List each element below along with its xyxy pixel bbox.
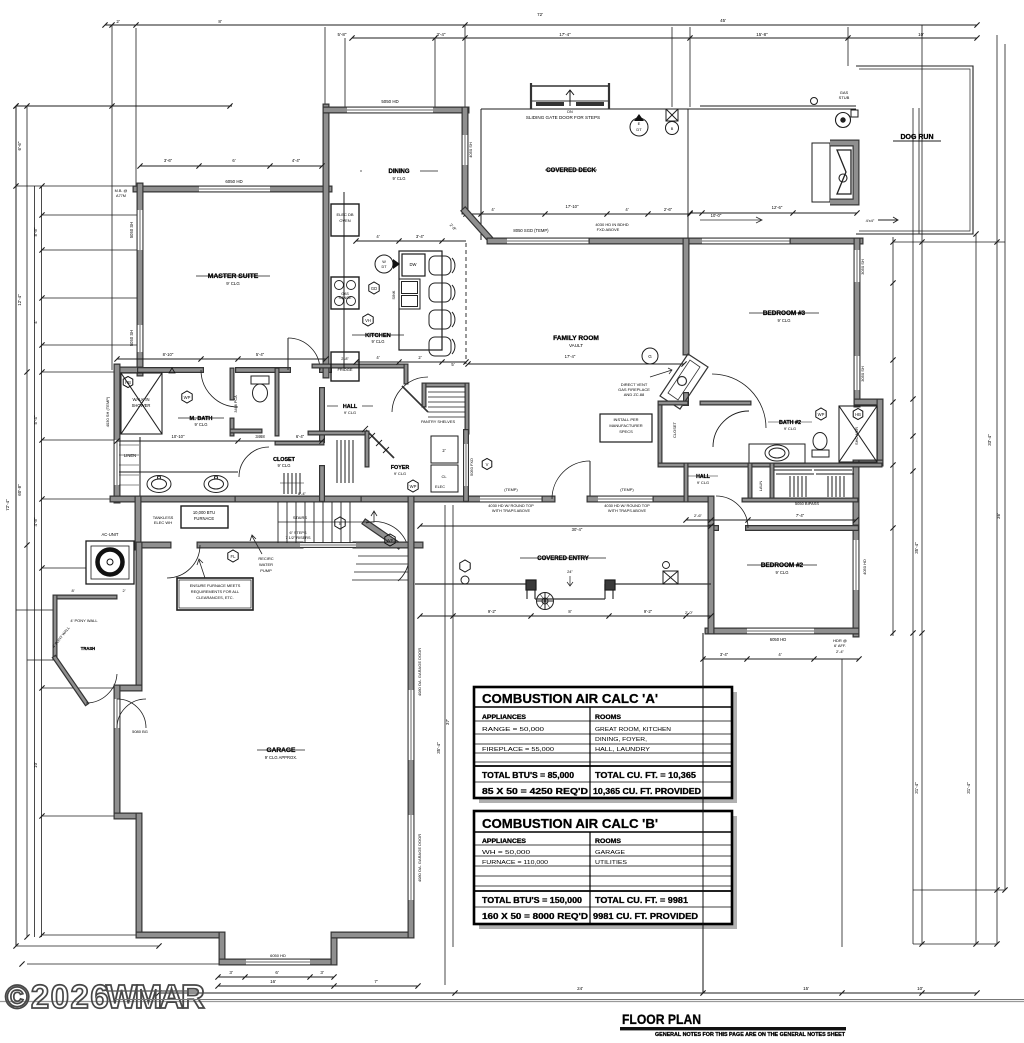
wall pantry north y385 (424, 383, 467, 388)
svg-text:DT: DT (381, 265, 387, 269)
svg-text:DOG RUN: DOG RUN (900, 134, 933, 141)
svg-text:DINING, FOYER,: DINING, FOYER, (595, 737, 647, 743)
svg-text:VAULT: VAULT (569, 343, 583, 348)
dim frame left line 72ft-4 (15, 106, 17, 946)
dim left stub y816 (42, 815, 115, 817)
svg-text:7'-4": 7'-4" (796, 513, 805, 518)
wall family north east seg (592, 238, 688, 245)
svg-text:24': 24' (577, 986, 583, 991)
wall garage west jog y688 (117, 685, 139, 692)
svg-text:4': 4' (625, 207, 628, 212)
svg-text:3'-4": 3'-4" (437, 32, 446, 37)
entry steps (358, 555, 410, 557)
table A shadow (479, 692, 737, 803)
wall bath2 north y403 (702, 401, 749, 406)
dim drop x136 (135, 28, 137, 189)
dim line entry y526 (417, 523, 713, 528)
kitchen cooktop (331, 277, 359, 309)
svg-text:24": 24" (567, 569, 573, 574)
svg-text:3050 SH: 3050 SH (860, 259, 865, 275)
svg-text:(TEMP): (TEMP) (620, 487, 634, 492)
stairs treads (278, 502, 352, 543)
wall family west x466 (463, 432, 469, 444)
entry column left (526, 580, 536, 590)
closet 2ft box (431, 436, 458, 463)
svg-text:9' CLG: 9' CLG (394, 471, 406, 476)
AC unit pad (86, 541, 134, 584)
dim line entry y616 (417, 613, 713, 618)
deck steps gate (531, 83, 609, 109)
wall laundry closet x750 (748, 465, 753, 500)
dim frame top line 72ft (105, 24, 977, 26)
wall garage recess west (219, 935, 226, 962)
wall dining east x465 (462, 110, 469, 135)
dim frame left line inner a (34, 186, 36, 937)
bath2 shower (839, 406, 877, 462)
dim left stub y215 (42, 214, 140, 216)
entry fan symbol (537, 593, 554, 610)
svg-text:10': 10' (917, 986, 923, 991)
symbol porch light (460, 560, 470, 572)
symbol hexagon stairs b (385, 534, 395, 546)
svg-text:3': 3' (320, 970, 324, 975)
dim frame left line 60ft-8 (26, 106, 28, 937)
svg-text:LAUN: LAUN (758, 481, 763, 492)
svg-text:35'-4": 35'-4" (436, 742, 441, 754)
svg-text:31'-4": 31'-4" (914, 782, 919, 794)
window master west upper 5050SH (137, 210, 144, 250)
bath2 vanity (749, 444, 805, 463)
kitchen oven box (331, 204, 359, 236)
wall west wing south y499 (113, 496, 238, 503)
dim left stub y186 (16, 185, 138, 187)
svg-text:8': 8' (72, 588, 75, 593)
svg-text:©2026: ©2026 (5, 978, 110, 1015)
svg-text:WP: WP (818, 412, 825, 417)
svg-text:TOTAL CU. FT. = 9981: TOTAL CU. FT. = 9981 (595, 896, 689, 905)
wall master bath west jog (117, 367, 140, 374)
svg-text:30'-4": 30'-4" (572, 527, 583, 532)
svg-text:CLEARANCES, ETC.: CLEARANCES, ETC. (196, 595, 233, 600)
master vanity sink left (147, 476, 171, 493)
pony wall trash west (53, 597, 58, 658)
svg-text:FURNACE = 110,000: FURNACE = 110,000 (482, 860, 548, 866)
wall garage east x411 (408, 900, 415, 935)
svg-text:B: B (671, 127, 674, 131)
wall angled front door (366, 523, 398, 545)
wall hall south y433 (310, 431, 365, 436)
wall bedroom3 north west (688, 238, 702, 245)
symbol porch box X right (663, 571, 678, 584)
svg-text:GARAGE: GARAGE (595, 850, 626, 856)
garage side door arc (117, 699, 146, 728)
svg-text:ROOMS: ROOMS (595, 714, 621, 721)
svg-text:ENSURE FURNACE MEETS: ENSURE FURNACE MEETS (190, 583, 241, 588)
dim drop x690 (689, 27, 691, 107)
window bedroom3 east upper 3050SH (854, 250, 861, 282)
svg-text:5050 SH: 5050 SH (129, 222, 134, 238)
dim run fence inner vertical x919 (918, 108, 920, 234)
covered deck top edge inner (700, 105, 856, 107)
svg-text:4': 4' (33, 320, 38, 324)
svg-text:2': 2' (123, 588, 126, 593)
window family west 5050FXD (463, 444, 469, 486)
wall master suite north (136, 186, 199, 193)
svg-text:9' CLG: 9' CLG (372, 339, 385, 344)
wall master bath west (114, 367, 121, 440)
svg-text:85 X 50 = 4250 REQ'D: 85 X 50 = 4250 REQ'D (482, 787, 588, 796)
svg-text:35'-4": 35'-4" (914, 542, 919, 554)
svg-text:3'-4": 3'-4" (720, 652, 729, 657)
window bedroom2 south 6050HD (747, 628, 814, 635)
closet door arc (239, 447, 269, 477)
wall closet north y443 (277, 441, 322, 446)
svg-text:RANGE = 50,000: RANGE = 50,000 (482, 727, 544, 733)
svg-text:FLOOR PLAN: FLOOR PLAN (622, 1011, 701, 1027)
dim drop x345 (344, 38, 346, 110)
pony wall trash diagonal (55, 658, 86, 703)
wall toilet room south y431 (232, 429, 260, 434)
svg-text:4': 4' (778, 652, 781, 657)
wall utility west x138 (135, 499, 142, 547)
wall bedroom2 west (708, 528, 715, 631)
svg-text:2'-6": 2'-6" (664, 207, 673, 212)
svg-text:9' CLG: 9' CLG (278, 463, 291, 468)
svg-text:STUB: STUB (839, 95, 850, 100)
wall bedroom3 closet north (660, 401, 686, 406)
wall garage west jog y816 (117, 813, 139, 820)
svg-text:4': 4' (376, 355, 379, 360)
svg-text:9' CLG: 9' CLG (778, 318, 791, 323)
symbol hexagon E-DT deck (630, 118, 648, 136)
wall hall north y366 (314, 364, 403, 369)
wall linen divider (139, 437, 141, 497)
dim drop x112 (111, 25, 113, 370)
svg-text:FAMILY ROOM: FAMILY ROOM (553, 335, 599, 342)
wall foyer south / front (364, 496, 480, 503)
svg-text:6050 HD: 6050 HD (270, 953, 286, 958)
wall bedroom3 west x686 (683, 241, 690, 352)
svg-text:ELEC DB: ELEC DB (336, 212, 353, 217)
svg-text:DT: DT (636, 127, 642, 132)
title underline (620, 1027, 846, 1030)
svg-text:4' PONY WALL: 4' PONY WALL (70, 618, 98, 623)
svg-text:9' CLG APPROX.: 9' CLG APPROX. (265, 755, 297, 760)
svg-text:VH: VH (365, 318, 371, 323)
walk-in shower (121, 373, 162, 434)
bipass hanging rods a (789, 476, 791, 497)
svg-text:WITH TRAPS ABOVE: WITH TRAPS ABOVE (492, 508, 531, 513)
svg-text:WP: WP (184, 395, 191, 400)
dim frame right vertical x913 (912, 108, 914, 944)
svg-text:GENERAL NOTES FOR THIS PAGE AR: GENERAL NOTES FOR THIS PAGE ARE ON THE G… (655, 1032, 845, 1038)
svg-text:ROOMS: ROOMS (595, 838, 621, 845)
svg-text:9' CLG: 9' CLG (697, 480, 709, 485)
symbol hexagon WP bath2 (816, 408, 826, 420)
symbol WP DT kitchen (375, 255, 393, 273)
svg-text:2': 2' (116, 19, 120, 24)
window front arch windows left (480, 496, 545, 503)
wall hall east x406 (404, 366, 409, 382)
svg-text:A77M: A77M (116, 194, 126, 198)
dim line master north interior (137, 163, 324, 168)
svg-text:S: S (339, 521, 342, 526)
svg-text:ELEC WH: ELEC WH (154, 520, 172, 525)
svg-text:6': 6' (232, 158, 235, 163)
bar stool 3 (429, 310, 455, 329)
svg-text:17'-10": 17'-10" (566, 204, 580, 209)
dim bottom line garage recess (215, 974, 336, 979)
svg-text:AND ZC.88: AND ZC.88 (624, 392, 645, 397)
svg-text:DW: DW (410, 262, 417, 267)
svg-text:RECIRC: RECIRC (258, 556, 273, 561)
svg-text:9' CLG: 9' CLG (784, 426, 796, 431)
svg-text:8'-10": 8'-10" (163, 352, 174, 357)
pony wall trash north (55, 595, 115, 600)
svg-text:16': 16' (270, 979, 276, 984)
svg-text:4030 SH (TEMP): 4030 SH (TEMP) (105, 396, 110, 427)
svg-text:STAIRS: STAIRS (293, 515, 307, 520)
dim line bedroom3 top (687, 210, 859, 215)
dim frame right vertical x1005 (1004, 44, 1006, 890)
wall garage recess south (222, 959, 246, 966)
svg-text:TOTAL BTU'S = 85,000: TOTAL BTU'S = 85,000 (482, 771, 575, 780)
svg-text:8050 SGD (TEMP): 8050 SGD (TEMP) (513, 228, 549, 233)
symbol hexagon GD kitchen (369, 282, 379, 294)
svg-text:6' AFF.: 6' AFF. (834, 643, 846, 648)
dim drop x435 (434, 38, 436, 110)
svg-text:G: G (648, 354, 652, 359)
svg-text:9' CLG: 9' CLG (226, 281, 240, 286)
svg-text:WMAR: WMAR (106, 978, 205, 1015)
dim right connector y242 (893, 241, 1005, 243)
svg-text:10,365 CU. FT. PROVIDED: 10,365 CU. FT. PROVIDED (593, 787, 701, 796)
dim frame right vertical x893 (892, 237, 894, 636)
window dining east 4050SH (462, 135, 469, 165)
svg-text:CLOSET: CLOSET (672, 421, 677, 438)
svg-text:72'-4": 72'-4" (5, 499, 10, 511)
dim right connector y944 (913, 943, 997, 945)
wall garage recess east (331, 935, 338, 962)
wall entry east x711 (708, 499, 715, 631)
dim vertical x842 bedroom2 (841, 659, 843, 947)
garage door arc top left (117, 699, 146, 728)
bipass closet doors (774, 469, 812, 471)
svg-text:3': 3' (229, 970, 233, 975)
svg-text:6" STEPS: 6" STEPS (290, 531, 307, 535)
svg-text:3'-4": 3'-4" (416, 234, 425, 239)
furnace note box (177, 578, 253, 610)
wall master suite west (137, 186, 144, 210)
svg-text:GD: GD (371, 286, 377, 291)
svg-text:8': 8' (568, 609, 571, 614)
door leaf hall (402, 386, 428, 412)
dim top-left short line (16, 105, 232, 107)
door arc bath2 (713, 411, 749, 447)
wall dining north (326, 107, 347, 114)
svg-text:15': 15' (803, 986, 809, 991)
svg-text:SHOWER: SHOWER (854, 427, 859, 445)
svg-text:5050 FXD: 5050 FXD (469, 458, 474, 476)
wall front entry segment 2a (545, 496, 552, 503)
wall bedroom3 west lower (683, 395, 689, 403)
dim left stub y610 (16, 609, 55, 611)
wall garage south east (334, 932, 411, 939)
svg-text:AC-UNIT: AC-UNIT (102, 532, 119, 537)
svg-text:WATER: WATER (259, 562, 273, 567)
svg-text:2'-6": 2'-6" (694, 513, 703, 518)
svg-text:ELEC: ELEC (435, 485, 445, 489)
svg-text:10,000 BTU: 10,000 BTU (193, 510, 215, 515)
svg-text:LINEN: LINEN (124, 453, 136, 458)
wall garage west upper x139 (136, 545, 143, 688)
svg-text:FURNACE: FURNACE (194, 516, 214, 521)
svg-text:4'-8": 4'-8" (33, 517, 38, 526)
garage door opening south 4080 (408, 815, 415, 900)
svg-text:12'-4": 12'-4" (17, 294, 22, 306)
vault dashed line (465, 243, 467, 364)
island DW box (402, 254, 425, 276)
svg-text:36': 36' (996, 513, 1001, 519)
dim line bath interior y359 (114, 356, 328, 361)
bipass hanging rods b (827, 476, 829, 497)
svg-text:4': 4' (376, 234, 379, 239)
window dining north 5050HD (347, 107, 433, 114)
svg-text:4050 SH: 4050 SH (468, 142, 473, 158)
bottom frame line (0, 1001, 1024, 1003)
svg-text:4'x4": 4'x4" (866, 218, 875, 223)
svg-text:FL: FL (231, 554, 237, 559)
covered deck top edge (481, 108, 856, 110)
svg-text:REQUIREMENTS FOR ALL: REQUIREMENTS FOR ALL (191, 589, 240, 594)
wall bedroom2 north (711, 525, 716, 531)
dim left stub y688 (42, 687, 115, 689)
svg-text:WP: WP (387, 538, 394, 543)
dim drop x465 (464, 25, 466, 110)
front door arc (366, 522, 409, 581)
wall closet-stair divider x367 (365, 433, 370, 465)
svg-text:4': 4' (491, 207, 494, 212)
dim frame right vertical x997 (996, 35, 998, 944)
svg-text:3468: 3468 (255, 434, 265, 439)
svg-text:60'-8": 60'-8" (17, 484, 22, 496)
elec panel box (431, 465, 458, 492)
svg-text:SLIDING GATE DOOR FOR STEPS: SLIDING GATE DOOR FOR STEPS (526, 115, 600, 120)
svg-text:5'-4": 5'-4" (33, 415, 38, 424)
wall bath south vanity ledge (119, 471, 238, 473)
furnace box (181, 506, 228, 528)
symbol hexagon WP mbath (182, 391, 192, 403)
bar stool 4 (429, 337, 455, 356)
dim left stub y440 (42, 439, 115, 441)
svg-text:6'-4": 6'-4" (296, 434, 305, 439)
window bedroom3 north (702, 238, 793, 245)
dog house pad (812, 143, 830, 202)
svg-text:RANGE: RANGE (339, 296, 352, 300)
svg-text:GREAT ROOM, KITCHEN: GREAT ROOM, KITCHEN (595, 727, 671, 733)
dim frame right vertical x976 (975, 234, 977, 944)
svg-text:4'-4": 4'-4" (292, 158, 301, 163)
svg-text:FRIDGE: FRIDGE (337, 367, 352, 372)
table B combustion air calc B (474, 811, 732, 924)
window bath west (114, 440, 121, 485)
svg-text:9'-2": 9'-2" (644, 609, 653, 614)
bar stool 1 (429, 256, 455, 275)
bar stool 2 (429, 283, 455, 302)
wall hall west x686 lower (684, 465, 689, 500)
door arc bedroom3 (712, 374, 766, 428)
wall garage north y545 (138, 542, 168, 549)
wall family north west seg (490, 238, 507, 245)
dim right connector y890 (913, 889, 1005, 891)
wall bedroom3 north east (793, 238, 860, 245)
wall front entry segment 2b (590, 496, 598, 503)
symbol hexagon HB shower (123, 377, 133, 388)
svg-text:4080 OA. GARAGE DOOR: 4080 OA. GARAGE DOOR (417, 648, 422, 696)
kitchen fridge box (331, 352, 359, 381)
symbol hexagon FL utility (228, 550, 238, 562)
svg-text:APPLIANCES: APPLIANCES (482, 838, 526, 845)
svg-text:3468 PCA: 3468 PCA (234, 395, 238, 413)
svg-text:COMBUSTION AIR CALC 'B': COMBUSTION AIR CALC 'B' (482, 816, 658, 831)
svg-text:WALK IN: WALK IN (132, 397, 149, 402)
wall bedroom3 east x857 (854, 241, 861, 250)
symbol circle G family (642, 348, 658, 364)
symbol hose bib deck (666, 109, 678, 121)
watermark 2026 WMAR (5, 978, 205, 1015)
island sink (399, 279, 420, 309)
dim left stub y568 (42, 567, 86, 569)
master toilet (251, 376, 269, 402)
dim bottom extension y964 (27, 963, 336, 965)
dim left stub y660 (27, 659, 55, 661)
wall kitchen-master divider x326 (323, 107, 330, 375)
front entry door arc (552, 461, 590, 499)
wall bath/master divider y370 (140, 367, 201, 373)
wall pantry west elbow (422, 385, 427, 405)
door arc utility to garage (167, 545, 200, 578)
svg-text:FIREPLACE = 55,000: FIREPLACE = 55,000 (482, 747, 554, 753)
dim drop x325 (324, 27, 326, 110)
dim line deck interior y214 (463, 211, 692, 216)
svg-text:WITH TRAPS ABOVE: WITH TRAPS ABOVE (608, 508, 647, 513)
svg-text:7 1/2" RISERS: 7 1/2" RISERS (286, 536, 311, 540)
wall hall-bath2 divider y465 (660, 463, 880, 468)
svg-text:6': 6' (275, 970, 279, 975)
wall bath2 bump north (857, 399, 880, 406)
svg-text:5050 SH: 5050 SH (129, 330, 134, 346)
wall bedroom2 south (708, 628, 747, 635)
svg-text:17'-4": 17'-4" (559, 32, 571, 37)
svg-text:TOTAL CU. FT. = 10,365: TOTAL CU. FT. = 10,365 (595, 771, 697, 780)
svg-text:9'-2": 9'-2" (488, 609, 497, 614)
svg-text:2': 2' (442, 448, 445, 453)
wall dining diagonal (465, 211, 490, 239)
svg-text:BEDROOM #3: BEDROOM #3 (763, 310, 806, 317)
symbol gas meter deck (836, 113, 851, 128)
svg-text:9' CLG: 9' CLG (776, 570, 789, 575)
wall garage west x117 (114, 688, 121, 699)
svg-text:MASTER SUITE: MASTER SUITE (208, 273, 259, 280)
dim drop x672 (671, 27, 673, 107)
svg-text:9' CLG: 9' CLG (195, 422, 208, 427)
door arc master to bath (201, 370, 238, 407)
dim line bedroom2 south (700, 656, 861, 661)
AC unit fan circle (98, 550, 123, 575)
dim vertical x703 through tables (702, 633, 704, 993)
window garage recess 6050HD (246, 959, 310, 966)
svg-text:5'-8": 5'-8" (338, 32, 347, 37)
